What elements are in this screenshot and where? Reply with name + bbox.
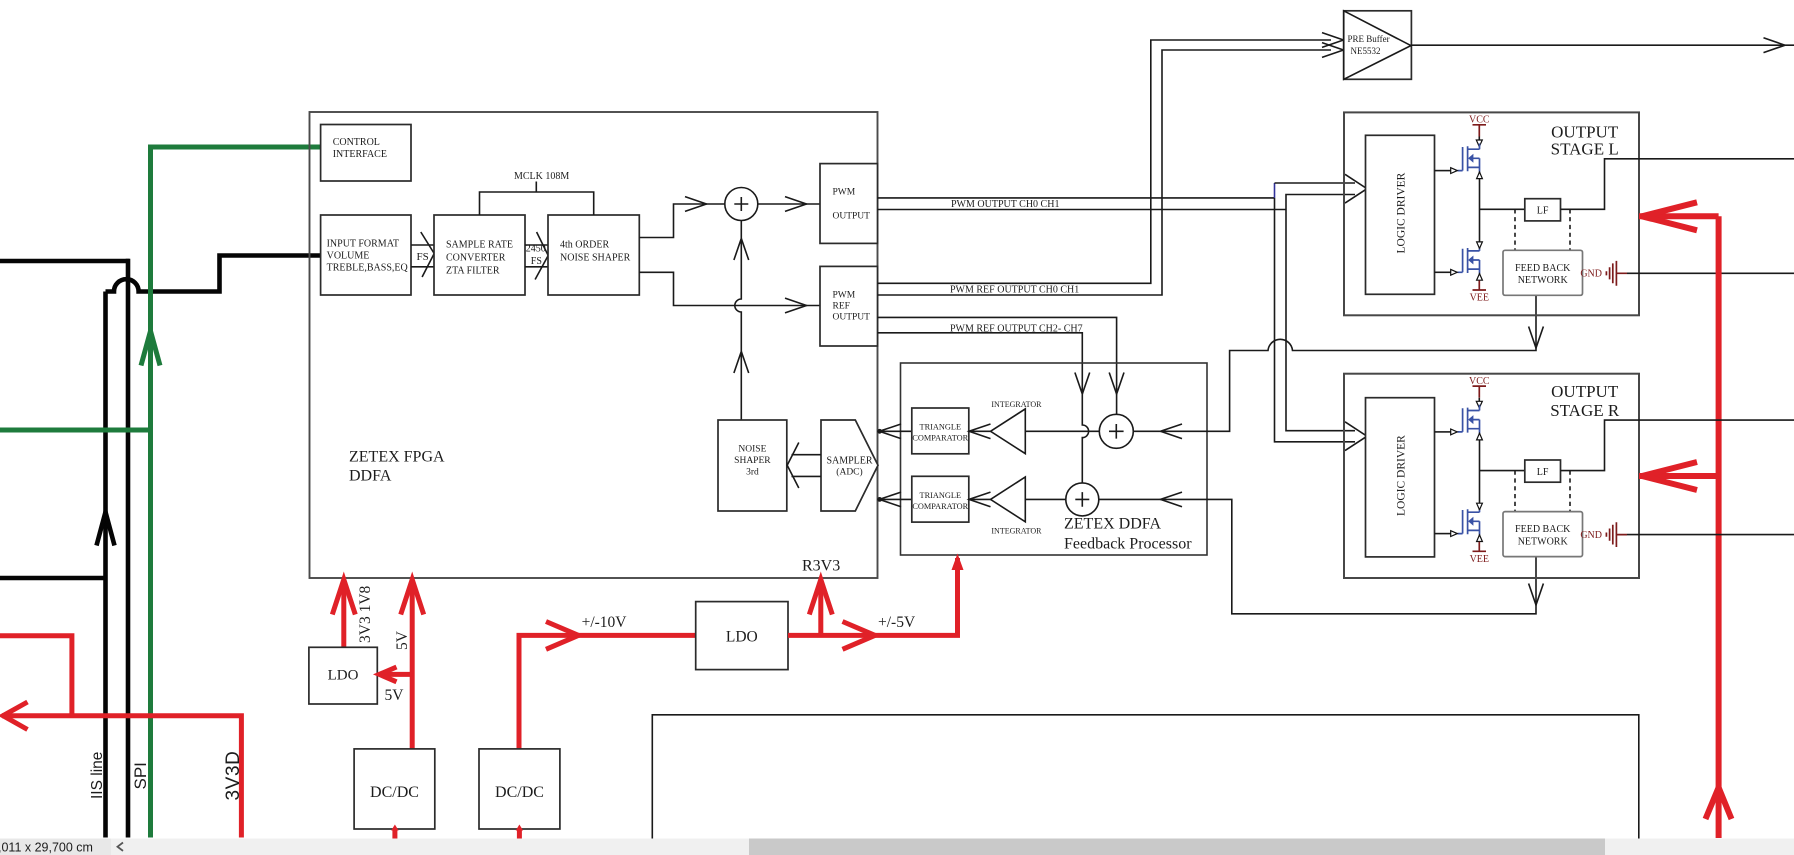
wire down to stage R lower input xyxy=(1275,198,1356,442)
mid node wire R xyxy=(1480,433,1525,510)
summer circle 1 xyxy=(1099,414,1133,448)
red +/-10V wire xyxy=(519,635,696,749)
op-amp integrator lower xyxy=(991,477,1026,522)
svg-text:INTERFACE: INTERFACE xyxy=(333,149,387,160)
svg-text:DC/DC: DC/DC xyxy=(370,784,419,801)
gate wire Q4 xyxy=(1435,533,1451,535)
op-amp integrator upper xyxy=(991,409,1026,454)
svg-text:NOISE: NOISE xyxy=(738,444,766,454)
svg-text:LOGIC DRIVER: LOGIC DRIVER xyxy=(1396,172,1408,253)
gate wire Q1 xyxy=(1435,170,1451,172)
svg-text:LDO: LDO xyxy=(328,668,359,684)
svg-text:OUTPUT: OUTPUT xyxy=(1551,382,1619,401)
svg-text:IIS line: IIS line xyxy=(89,752,106,799)
svg-text:OUTPUT: OUTPUT xyxy=(833,313,871,323)
red trunk vertical right xyxy=(1716,216,1722,838)
svg-text:NETWORK: NETWORK xyxy=(1518,275,1569,286)
svg-text:LOGIC DRIVER: LOGIC DRIVER xyxy=(1396,435,1408,516)
wire summer down to noise shaper 3rd with hop xyxy=(735,221,741,421)
red 3V3 1V8 arrow into FPGA xyxy=(341,581,346,648)
svg-text:,011 x 29,700 cm: ,011 x 29,700 cm xyxy=(0,841,93,855)
wire integrator to comparator upper xyxy=(969,430,991,432)
block FEED BACK NETWORK L xyxy=(1503,250,1583,295)
block TRIANGLE COMPARATOR upper xyxy=(912,408,969,454)
svg-text:VEE: VEE xyxy=(1470,293,1489,304)
svg-text:NETWORK: NETWORK xyxy=(1518,536,1569,547)
red stub below DC/DC 2 xyxy=(517,829,522,839)
wire SPI green horizontal into control interface xyxy=(148,145,321,150)
wire SPI green vertical xyxy=(148,147,153,838)
box OUTPUT STAGE R xyxy=(1344,374,1639,578)
transistor Q3 upper MOSFET R xyxy=(1458,405,1480,433)
wire pre buffer output xyxy=(1411,44,1794,46)
arrow down on FBN L drop xyxy=(1529,327,1544,349)
svg-text:ZTA FILTER: ZTA FILTER xyxy=(446,266,500,277)
svg-text:GND: GND xyxy=(1580,269,1602,280)
wire LF L output xyxy=(1561,159,1794,210)
block LOGIC DRIVER R xyxy=(1366,398,1435,557)
block NOISE SHAPER 3rd xyxy=(718,420,787,511)
svg-text:NOISE SHAPER: NOISE SHAPER xyxy=(560,253,631,264)
svg-text:PWM OUTPUT CH0 CH1: PWM OUTPUT CH0 CH1 xyxy=(951,199,1059,210)
block SAMPLER (ADC) pentagon xyxy=(821,420,878,511)
block CONTROL INTERFACE xyxy=(321,125,411,182)
transistor Q2 lower MOSFET L xyxy=(1458,248,1480,273)
svg-text:+/-5V: +/-5V xyxy=(878,614,916,631)
red tip into DC/DC 2 xyxy=(515,749,522,755)
block LF R xyxy=(1525,460,1561,482)
wire input format to sample rate xyxy=(411,245,434,267)
box OUTPUT STAGE L xyxy=(1344,112,1639,315)
wire IIS bus vertical 1 xyxy=(103,292,108,838)
red 5V arrow into FPGA xyxy=(410,581,415,749)
arrow into PWM OUTPUT xyxy=(785,197,807,212)
arrow into logic driver L xyxy=(1345,174,1367,203)
dashed links to feedback network L xyxy=(1515,209,1570,250)
svg-text:FS: FS xyxy=(417,251,429,263)
block LOGIC DRIVER L xyxy=(1366,135,1435,294)
status text area xyxy=(0,839,111,855)
svg-text:OUTPUT: OUTPUT xyxy=(1551,122,1619,141)
wire summer2 to integrator lower xyxy=(1025,498,1066,500)
dashed links to feedback network R xyxy=(1515,471,1570,512)
bus PWM OUTPUT CH0 CH1 line 2 xyxy=(878,195,1356,431)
wire sampler to noise shaper upper xyxy=(792,454,822,456)
op-amp PRE Buffer NE5532 xyxy=(1344,11,1412,80)
gate wire Q3 xyxy=(1435,431,1451,433)
red 5V branch into LDO 1 xyxy=(380,672,412,677)
arrow up into summer xyxy=(734,239,749,261)
red tip into DC/DC 1 xyxy=(409,749,416,755)
wire summer to PWM OUTPUT xyxy=(758,203,820,205)
svg-text:3rd: 3rd xyxy=(746,467,759,477)
status bar track xyxy=(0,839,1794,855)
bus arrow 2450 FS xyxy=(535,232,548,280)
block INPUT FORMAT VOLUME TREBLE,BASS,EQ xyxy=(321,215,411,295)
svg-text:LF: LF xyxy=(1537,206,1549,217)
svg-text:LDO: LDO xyxy=(726,628,758,645)
bus PWM OUTPUT CH0 CH1 line 1 xyxy=(878,197,1275,199)
arrows into pre buffer xyxy=(1322,33,1344,48)
arrow up on vertical to summer xyxy=(734,352,749,374)
wire green horizontal to left edge xyxy=(0,428,151,433)
wire red 3V3D horizontal xyxy=(2,716,241,838)
svg-text:FEED BACK: FEED BACK xyxy=(1515,263,1571,274)
svg-text:STAGE R: STAGE R xyxy=(1550,401,1620,420)
bus PWM REF OUTPUT CH2-CH7 upper xyxy=(878,317,1117,414)
svg-text:PWM REF OUTPUT CH0 CH1: PWM REF OUTPUT CH0 CH1 xyxy=(950,285,1079,296)
svg-text:COMPARATOR: COMPARATOR xyxy=(912,502,968,511)
svg-text:4th ORDER: 4th ORDER xyxy=(560,240,610,251)
block SAMPLE RATE CONVERTER ZTA FILTER xyxy=(434,215,525,295)
wire GND R to right xyxy=(1627,534,1794,536)
arrow toward summer1 xyxy=(1161,424,1183,439)
big lower box xyxy=(652,715,1639,839)
bus arrow FS xyxy=(421,232,434,277)
wire red upper-left branch xyxy=(0,636,72,716)
svg-text:PWM REF OUTPUT CH2- CH7: PWM REF OUTPUT CH2- CH7 xyxy=(950,324,1083,335)
gate wire Q2 xyxy=(1435,271,1451,273)
svg-text:INTEGRATOR: INTEGRATOR xyxy=(991,526,1042,535)
summer circle 2 xyxy=(1066,483,1099,516)
svg-text:ZETEX DDFA: ZETEX DDFA xyxy=(1064,516,1161,533)
block LDO 1 xyxy=(309,647,377,704)
svg-text:DDFA: DDFA xyxy=(349,468,392,485)
svg-text:LF: LF xyxy=(1537,467,1549,478)
arrow up on red trunk xyxy=(1706,788,1732,820)
wire GND L to right xyxy=(1627,272,1794,274)
block LF L xyxy=(1525,199,1561,221)
svg-text:5V: 5V xyxy=(385,687,405,704)
arrow down into summer 2 xyxy=(1075,373,1090,395)
wire sampler to noise shaper lower xyxy=(792,475,822,477)
red supply into feedback processor xyxy=(955,558,960,635)
red feed arrow into stage R xyxy=(1639,473,1719,479)
block FEED BACK NETWORK R xyxy=(1503,512,1583,557)
block DC/DC 1 xyxy=(354,749,435,829)
scrollbar thumb xyxy=(749,839,1605,855)
svg-text:PWM: PWM xyxy=(833,187,856,197)
VEE L xyxy=(1479,273,1481,280)
wire MCLK clock tree xyxy=(480,182,594,216)
transistor Q4 lower MOSFET R xyxy=(1458,509,1480,534)
mid node wire L xyxy=(1480,172,1525,249)
bus PWM REF OUTPUT CH2-CH7 lower with hop xyxy=(878,333,1089,483)
svg-text:Feedback Processor: Feedback Processor xyxy=(1064,536,1192,553)
arrow toward summer2 xyxy=(1161,492,1183,507)
arrow into PWM REF OUTPUT xyxy=(785,298,807,313)
wire LF R output xyxy=(1561,420,1794,471)
svg-text:(ADC): (ADC) xyxy=(836,467,862,478)
wire 4th order upper output to summer xyxy=(639,204,724,238)
svg-text:SPI: SPI xyxy=(131,762,150,789)
block LDO 2 xyxy=(696,602,788,670)
svg-text:PWM: PWM xyxy=(833,291,856,301)
feedback wire L from FBN to summer1 xyxy=(1133,295,1536,431)
arrow into summer xyxy=(685,197,707,212)
svg-text:+/-10V: +/-10V xyxy=(582,614,628,631)
feedback wire R from FBN to summer2 xyxy=(1099,499,1536,613)
wire IIS bus vertical 2 xyxy=(126,259,131,838)
svg-text:TRIANGLE: TRIANGLE xyxy=(920,491,961,500)
box ZETEX DDFA Feedback Processor xyxy=(901,363,1208,555)
wire sample rate to 4th order xyxy=(525,245,548,267)
svg-text:VOLUME: VOLUME xyxy=(327,251,370,262)
navy corner segment xyxy=(1274,183,1276,198)
wire integrator to comparator lower xyxy=(969,498,991,500)
arrow up on SPI vertical xyxy=(141,331,160,366)
svg-text:STAGE L: STAGE L xyxy=(1551,140,1619,159)
svg-text:ZETEX FPGA: ZETEX FPGA xyxy=(349,449,445,466)
red +/-5V wire xyxy=(788,632,958,635)
bus PWM REF OUTPUT CH0 CH1 to pre buffer xyxy=(878,40,1332,295)
block DC/DC 2 xyxy=(479,749,560,829)
wire to stage L upper input xyxy=(1275,182,1356,184)
arrow on pre buffer output xyxy=(1764,38,1786,53)
wire triangle comparator L output to sampler xyxy=(878,430,912,432)
arrow down into summer 1 xyxy=(1109,373,1124,395)
VEE R xyxy=(1479,535,1481,542)
arrow into logic driver R xyxy=(1345,422,1367,451)
red branch up into FPGA xyxy=(818,581,823,635)
svg-text:COMPARATOR: COMPARATOR xyxy=(912,434,968,443)
svg-text:MCLK 108M: MCLK 108M xyxy=(514,171,569,182)
svg-text:3V3D: 3V3D xyxy=(223,751,244,801)
svg-text:3V3 1V8: 3V3 1V8 xyxy=(357,585,374,643)
svg-text:NE5532: NE5532 xyxy=(1351,46,1381,56)
svg-text:5V: 5V xyxy=(394,630,411,650)
red stub below DC/DC 1 xyxy=(392,829,397,839)
arrow+junction at FPGA edge lower xyxy=(879,492,901,507)
svg-text:TREBLE,BASS,EQ: TREBLE,BASS,EQ xyxy=(327,263,409,274)
svg-text:PRE Buffer: PRE Buffer xyxy=(1348,34,1390,44)
summer circle L xyxy=(725,188,758,221)
wire triangle comparator R output to sampler xyxy=(878,498,912,500)
wire summer1 to integrator upper xyxy=(1025,430,1099,432)
arrow+junction at FPGA edge upper xyxy=(879,424,901,439)
svg-text:GND: GND xyxy=(1580,530,1602,541)
svg-text:CONTROL: CONTROL xyxy=(333,137,380,148)
svg-text:CONVERTER: CONVERTER xyxy=(446,253,506,264)
arrow left on red 3V3D wire xyxy=(3,702,28,730)
arrow up on IIS vertical xyxy=(97,512,115,546)
block PWM OUTPUT xyxy=(820,164,878,244)
svg-text:SAMPLE RATE: SAMPLE RATE xyxy=(446,240,513,251)
svg-text:SAMPLER: SAMPLER xyxy=(826,455,872,466)
red feed arrow into stage L xyxy=(1639,213,1719,219)
svg-text:VEE: VEE xyxy=(1470,554,1489,565)
svg-text:INPUT FORMAT: INPUT FORMAT xyxy=(327,239,399,250)
block 4th ORDER NOISE SHAPER xyxy=(548,215,639,295)
svg-text:REF: REF xyxy=(833,302,850,312)
svg-text:OUTPUT: OUTPUT xyxy=(833,212,871,222)
block TRIANGLE COMPARATOR lower xyxy=(912,476,969,522)
wire IIS line to left edge xyxy=(0,576,107,581)
svg-text:R3V3: R3V3 xyxy=(802,558,840,575)
svg-text:DC/DC: DC/DC xyxy=(495,784,544,801)
svg-text:FEED BACK: FEED BACK xyxy=(1515,524,1571,535)
wire IIS bus lower horizontal with hop over vertical xyxy=(106,256,321,292)
svg-text:SHAPER: SHAPER xyxy=(734,456,771,466)
svg-text:TRIANGLE: TRIANGLE xyxy=(920,423,961,432)
transistor Q1 upper MOSFET L xyxy=(1458,144,1480,172)
scrollbar left arrow xyxy=(118,843,124,851)
svg-text:INTEGRATOR: INTEGRATOR xyxy=(991,400,1042,409)
wire IIS bus upper horizontal xyxy=(0,259,130,264)
wire 4th order lower output to PWM REF OUTPUT xyxy=(639,272,820,305)
FPGA box ZETEX FPGA DDFA xyxy=(310,112,878,578)
svg-text:FS: FS xyxy=(531,256,542,267)
arrow down on FBN R drop xyxy=(1529,584,1544,606)
block PWM REF OUTPUT xyxy=(820,266,878,346)
arrow into noise shaper xyxy=(787,443,799,489)
